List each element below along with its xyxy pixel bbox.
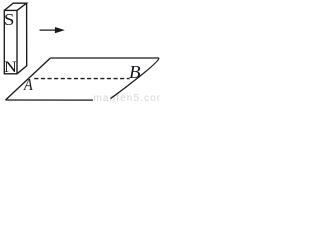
plane left edge xyxy=(6,58,51,100)
label A xyxy=(24,75,33,95)
plane bottom edge xyxy=(6,99,94,101)
dashed line A to B xyxy=(34,78,129,80)
label B xyxy=(129,62,141,83)
magnet bar (3D box) xyxy=(4,3,26,74)
label S xyxy=(4,10,14,30)
plane surface xyxy=(6,58,159,100)
arrow xyxy=(40,28,63,32)
magnet side face xyxy=(17,3,27,74)
magnet front face xyxy=(4,10,17,73)
plane right edge (slightly bowed) xyxy=(111,58,159,99)
magnet top face xyxy=(4,3,26,10)
watermark manfen5.com xyxy=(94,93,167,104)
plane top edge xyxy=(50,57,158,59)
label N xyxy=(4,59,17,77)
